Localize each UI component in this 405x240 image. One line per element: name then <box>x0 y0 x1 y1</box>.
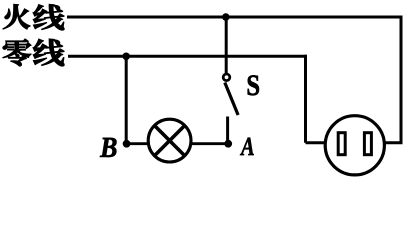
node A dot <box>224 140 232 148</box>
wire: live wire horizontal <box>67 16 403 19</box>
wire: live wire right vertical drop <box>400 16 403 143</box>
switch fixed contact circle <box>223 74 230 81</box>
wire: switch upper vertical <box>225 17 228 73</box>
label S <box>248 75 259 95</box>
lamp cross diagonal 1 <box>155 126 185 156</box>
node B dot <box>123 140 131 148</box>
socket right slot <box>364 133 371 155</box>
wire: lamp to node A <box>191 142 228 145</box>
wire: neutral right vertical drop <box>304 55 307 143</box>
wire: neutral wire horizontal <box>68 55 307 58</box>
label A <box>240 138 254 155</box>
wire: node B to lamp <box>127 142 149 145</box>
junction dot on neutral wire <box>122 53 130 61</box>
label 火线 (live wire) <box>3 4 64 30</box>
wire: socket right connection <box>385 141 403 144</box>
junction dot on live wire <box>222 13 230 21</box>
socket left slot <box>338 133 345 155</box>
lamp cross diagonal 2 <box>155 126 185 156</box>
switch blade <box>225 83 238 116</box>
socket circle <box>325 116 384 175</box>
wire: socket left connection <box>306 141 326 144</box>
label 零线 (neutral wire) <box>3 39 64 66</box>
label B <box>100 138 117 157</box>
wire: lamp branch vertical <box>125 56 128 143</box>
wire: switch lower vertical <box>226 117 229 144</box>
lamp circle <box>148 119 191 162</box>
